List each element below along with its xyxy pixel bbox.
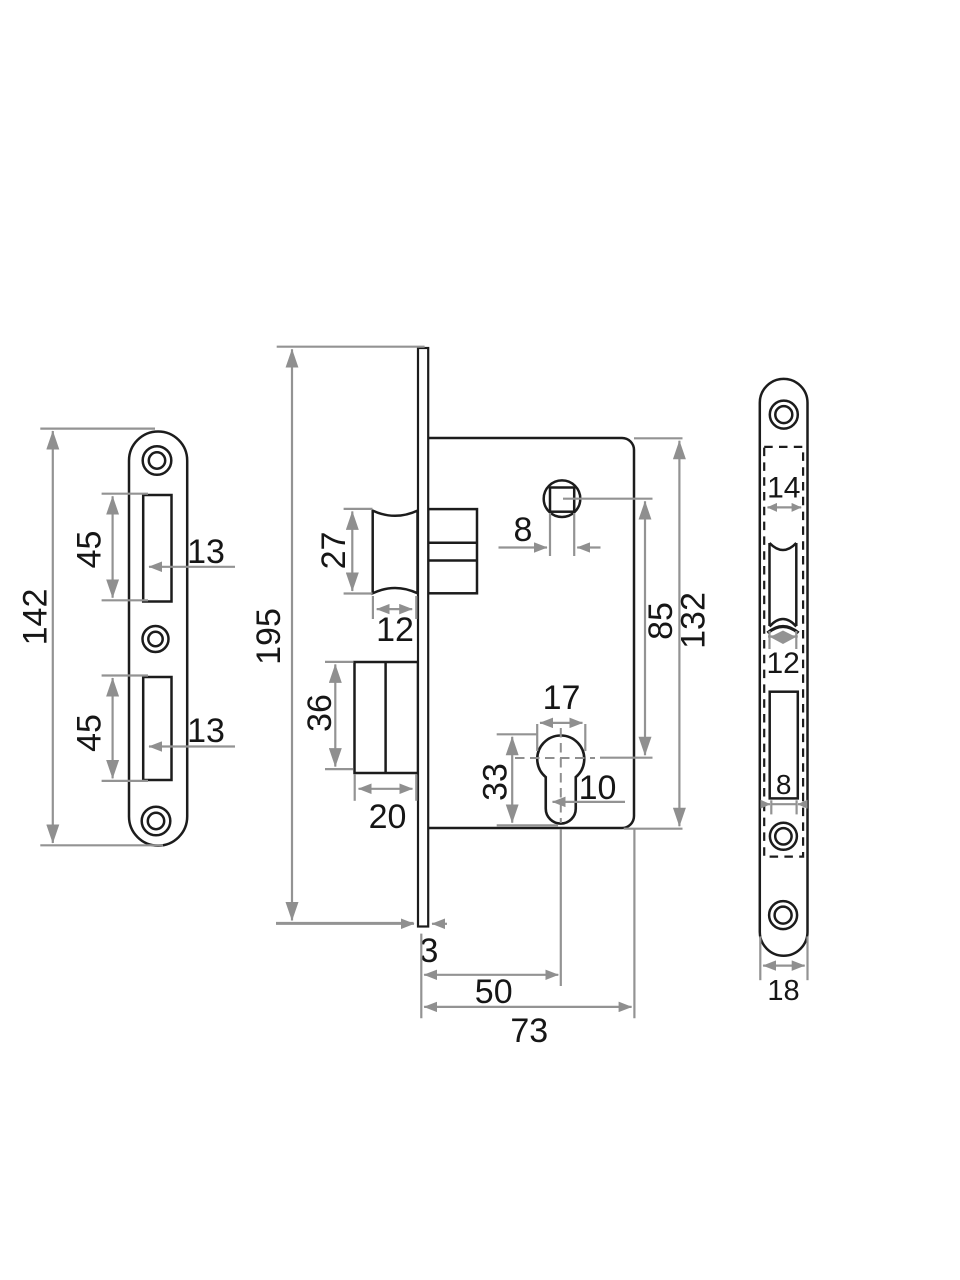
dimension 33 (cylinder hole height) (497, 734, 558, 825)
dimension 20 (deadbolt depth) (355, 775, 417, 801)
svg-text:27: 27 (315, 532, 353, 570)
cylinder horizontal centerline (dashed) (515, 757, 595, 759)
svg-text:132: 132 (675, 592, 713, 649)
dimension 132 (case height) (624, 438, 683, 828)
dimension 50 (faceplate to cylinder axis) (421, 830, 561, 1019)
svg-text:12: 12 (376, 611, 414, 649)
svg-text:73: 73 (510, 1012, 548, 1050)
faceplate front outline (760, 379, 808, 956)
dimension 18 (faceplate width) (760, 936, 807, 980)
strike plate upper latch slot (143, 495, 171, 602)
svg-text:17: 17 (543, 679, 581, 717)
dimension 12 (latch opening width, diamond) (768, 631, 798, 649)
dimension 195 (faceplate length) (276, 347, 425, 923)
latch bolt tail (inside case) (428, 509, 477, 593)
deadbolt opening (770, 692, 798, 799)
svg-text:33: 33 (477, 763, 515, 801)
svg-text:36: 36 (301, 694, 339, 732)
dimension 3 (faceplate thickness) (276, 923, 447, 925)
strike plate outline (129, 432, 187, 846)
dimension 85 (follower to cylinder) (563, 499, 653, 758)
svg-text:14: 14 (767, 472, 800, 505)
faceplate middle screw hole (770, 823, 797, 850)
svg-text:10: 10 (579, 769, 617, 807)
dimension 45 (upper slot height) (102, 494, 148, 601)
dimension 45 (lower slot height) (102, 676, 148, 781)
dimension 36 (deadbolt height) (325, 662, 353, 769)
faceplate top screw hole (770, 401, 798, 429)
strike plate lower deadbolt slot (143, 677, 171, 780)
latch bolt head (outside faceplate) (373, 511, 418, 594)
dimension 17 (cylinder circle diameter) (537, 723, 585, 751)
cylinder vertical centerline (dashed) (560, 728, 562, 823)
svg-text:20: 20 (369, 798, 407, 836)
deadbolt (outside faceplate) (355, 662, 419, 773)
svg-text:13: 13 (187, 712, 225, 750)
svg-text:142: 142 (17, 589, 55, 646)
spindle follower square hole (544, 480, 581, 517)
svg-text:195: 195 (250, 608, 288, 665)
dimension 10 (cylinder slot width leader) (553, 801, 626, 803)
svg-text:13: 13 (187, 533, 225, 571)
euro cylinder hole (537, 736, 584, 824)
svg-text:8: 8 (776, 769, 792, 800)
dimension 13 (upper slot width leader) (149, 566, 235, 568)
strike plate top screw hole (143, 446, 172, 475)
lock body case (428, 438, 634, 828)
dimension 142 (strike plate length) (40, 429, 163, 846)
recess dashed rectangle (764, 447, 803, 857)
strike plate bottom screw hole (142, 807, 171, 836)
dimension 13 (lower slot width leader) (149, 745, 235, 747)
dimension 27 (latch height) (344, 509, 373, 594)
dimension 73 (faceplate to case back) (424, 829, 634, 1018)
svg-text:45: 45 (71, 714, 109, 752)
latch opening (768, 543, 799, 633)
svg-text:8: 8 (514, 511, 533, 549)
svg-text:12: 12 (767, 647, 800, 680)
svg-text:18: 18 (767, 975, 799, 1007)
faceplate bottom screw hole (769, 901, 797, 929)
strike plate middle screw hole (143, 626, 169, 652)
dimension 8 (follower square) (499, 513, 601, 556)
svg-text:50: 50 (475, 973, 513, 1011)
svg-text:45: 45 (71, 531, 109, 569)
faceplate (side view) (418, 348, 428, 927)
dimension 12 (latch depth) (373, 596, 416, 619)
